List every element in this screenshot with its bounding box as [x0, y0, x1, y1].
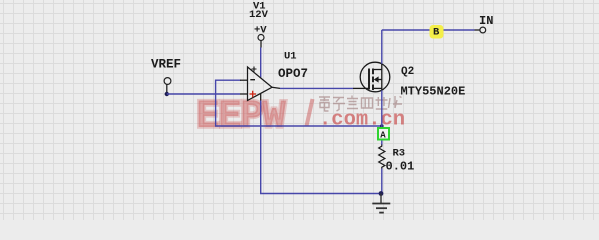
watermark chinese chars (vector approximation) [319, 96, 402, 112]
op-amp minus input marker [250, 79, 255, 81]
drain link [374, 69, 382, 71]
op-amp U1 [248, 67, 281, 101]
svg-text:VREF: VREF [151, 58, 181, 72]
svg-text:R3: R3 [393, 148, 406, 160]
ground [372, 194, 390, 213]
svg-text:0.01: 0.01 [386, 160, 415, 174]
wire R3 to ground [381, 169, 383, 194]
pin from power port [260, 41, 262, 48]
node B highlight [430, 25, 444, 39]
body arrow [374, 76, 379, 82]
svg-text:OPO7: OPO7 [278, 67, 308, 81]
pin gate [353, 87, 369, 89]
op-amp V- pin [260, 94, 262, 101]
wire drain up [381, 30, 383, 64]
watermark red slash [307, 99, 313, 126]
wire VREF to op-amp + input [167, 93, 240, 95]
wire feedback to - input [216, 80, 382, 126]
op-amp plus input marker (red) [250, 91, 257, 97]
source link [374, 87, 382, 89]
junction dot node A feedback [380, 124, 384, 128]
wire node B horizontal [382, 29, 475, 31]
internal vertical drain-source line [381, 64, 383, 91]
terminal VREF circle [164, 78, 171, 85]
node A box [378, 128, 389, 140]
svg-text:.com.cn: .com.cn [319, 109, 405, 132]
power port V1 circle [258, 35, 264, 41]
svg-text:U1: U1 [284, 51, 297, 63]
junction dot ground node [379, 191, 384, 196]
wire source down to R3 [381, 90, 383, 145]
svg-text:B: B [433, 27, 440, 39]
svg-text:IN: IN [479, 14, 493, 28]
op-amp V+ plus marker [252, 67, 257, 72]
gate bar [368, 69, 370, 90]
wire op-amp V- down and to ground junction [261, 101, 381, 194]
transistor Q2 MOSFET [360, 62, 390, 92]
terminal IN circle [480, 27, 486, 33]
wire op-amp output to gate [280, 87, 353, 89]
svg-text:MTY55N20E: MTY55N20E [401, 85, 466, 99]
pin op-amp - input [240, 79, 248, 81]
svg-text:Q2: Q2 [401, 66, 414, 78]
pin op-amp + input [240, 93, 248, 95]
junction dot VREF [165, 92, 169, 96]
resistor R3 [379, 145, 385, 169]
pin VREF [166, 84, 168, 94]
svg-text:12V: 12V [249, 9, 269, 21]
op-amp output stub [272, 87, 280, 88]
channel bar segments [372, 69, 374, 91]
pin IN terminal [475, 29, 481, 31]
svg-text:A: A [380, 131, 386, 141]
svg-text:EEPW: EEPW [196, 95, 286, 140]
watermark EEPW logo [196, 95, 405, 140]
wire +V to op-amp [260, 48, 262, 78]
